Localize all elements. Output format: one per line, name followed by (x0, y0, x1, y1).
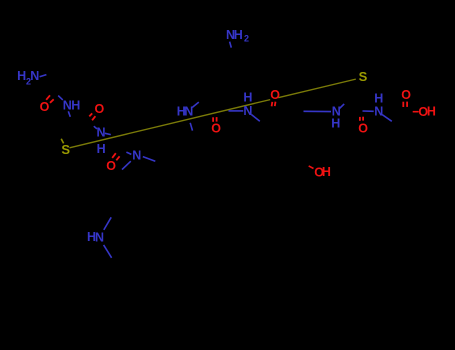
svg-text:H: H (331, 116, 340, 130)
wire C=O double bond 3 (112, 153, 116, 158)
node NH amide 1 (63, 98, 80, 112)
wire N-C(=O) bond 2 (94, 126, 97, 129)
svg-text:N: N (132, 149, 141, 163)
wire NH-C(=O) bond (58, 96, 63, 100)
wire N-CH2 bond right (143, 157, 156, 162)
svg-text:N: N (97, 125, 106, 139)
svg-text:N: N (243, 104, 252, 118)
wire C=O double bond carboxyl (402, 102, 404, 107)
node HN amide 4 (177, 105, 194, 119)
wire C-N bond left horizontal 5 (229, 110, 244, 112)
wire HN-CA bond down (190, 123, 192, 131)
svg-text:H: H (71, 98, 80, 112)
wire HN-C indole down-right (104, 245, 112, 258)
wire disulfide S-S bond left segment (70, 100, 271, 148)
node N-H amide 6 (331, 105, 341, 131)
wire N-CA bond down-right 7 (382, 115, 392, 122)
svg-text:2: 2 (244, 34, 249, 44)
svg-text:O: O (40, 100, 50, 114)
svg-text:S: S (61, 142, 70, 157)
wire N-CA bond up-right 6 (339, 104, 344, 109)
svg-text:N: N (30, 69, 39, 83)
wire NH-CA bond down (68, 111, 70, 117)
wire C-OH stub tyrosine (309, 166, 314, 169)
wire HN-CA bond up-right (192, 102, 199, 107)
wire H2N-CA bond (40, 75, 47, 77)
wire C-N bond horizontal 7 (363, 110, 374, 112)
wire C=O double bond 1 (46, 95, 50, 100)
svg-text:H: H (97, 142, 106, 156)
svg-text:O: O (211, 121, 221, 135)
svg-text:H: H (322, 165, 331, 179)
wire N-CH bond down-left (122, 161, 131, 169)
wire C-S stub at left sulfur (61, 139, 63, 144)
svg-text:S: S (359, 69, 368, 84)
svg-text:O: O (358, 121, 368, 135)
wire C=O double bond 6 (359, 117, 361, 121)
wire C-OH bond carboxyl (413, 111, 419, 113)
svg-text:O: O (401, 88, 411, 102)
node H-N amide 7 (374, 92, 383, 119)
node NH2 lysine side chain (226, 28, 249, 44)
wire N-CA bond down-right 5 (252, 115, 260, 122)
svg-text:O: O (270, 88, 280, 102)
node H-N amide 5 (243, 91, 252, 119)
svg-text:O: O (95, 102, 105, 116)
svg-text:H: H (243, 91, 252, 105)
wire NH2-CH2 stub (230, 42, 232, 48)
node HN indole (87, 230, 104, 244)
wire N-C(=O) bond 3 (126, 152, 131, 154)
svg-text:H: H (234, 28, 243, 42)
svg-text:H: H (17, 69, 26, 83)
svg-text:N: N (374, 104, 383, 118)
wire C=O double bond 2 (89, 113, 92, 116)
wire C=O double bond 5 (271, 102, 274, 106)
node OH tyrosine phenol (314, 165, 331, 179)
svg-text:H: H (427, 105, 436, 119)
node H2N terminal amine (17, 69, 39, 87)
wire HN-C indole up-right (104, 217, 111, 230)
svg-text:O: O (106, 159, 116, 173)
wire disulfide S-S bond right segment (278, 79, 356, 98)
wire N-CA stub right 2 (105, 133, 111, 134)
wire C=O double bond 4 (212, 117, 214, 122)
node N-H amide 2 (97, 125, 106, 156)
node OH carboxyl (418, 105, 436, 119)
svg-text:N: N (95, 230, 104, 244)
wire C-N long horizontal bond 6 (304, 110, 332, 112)
